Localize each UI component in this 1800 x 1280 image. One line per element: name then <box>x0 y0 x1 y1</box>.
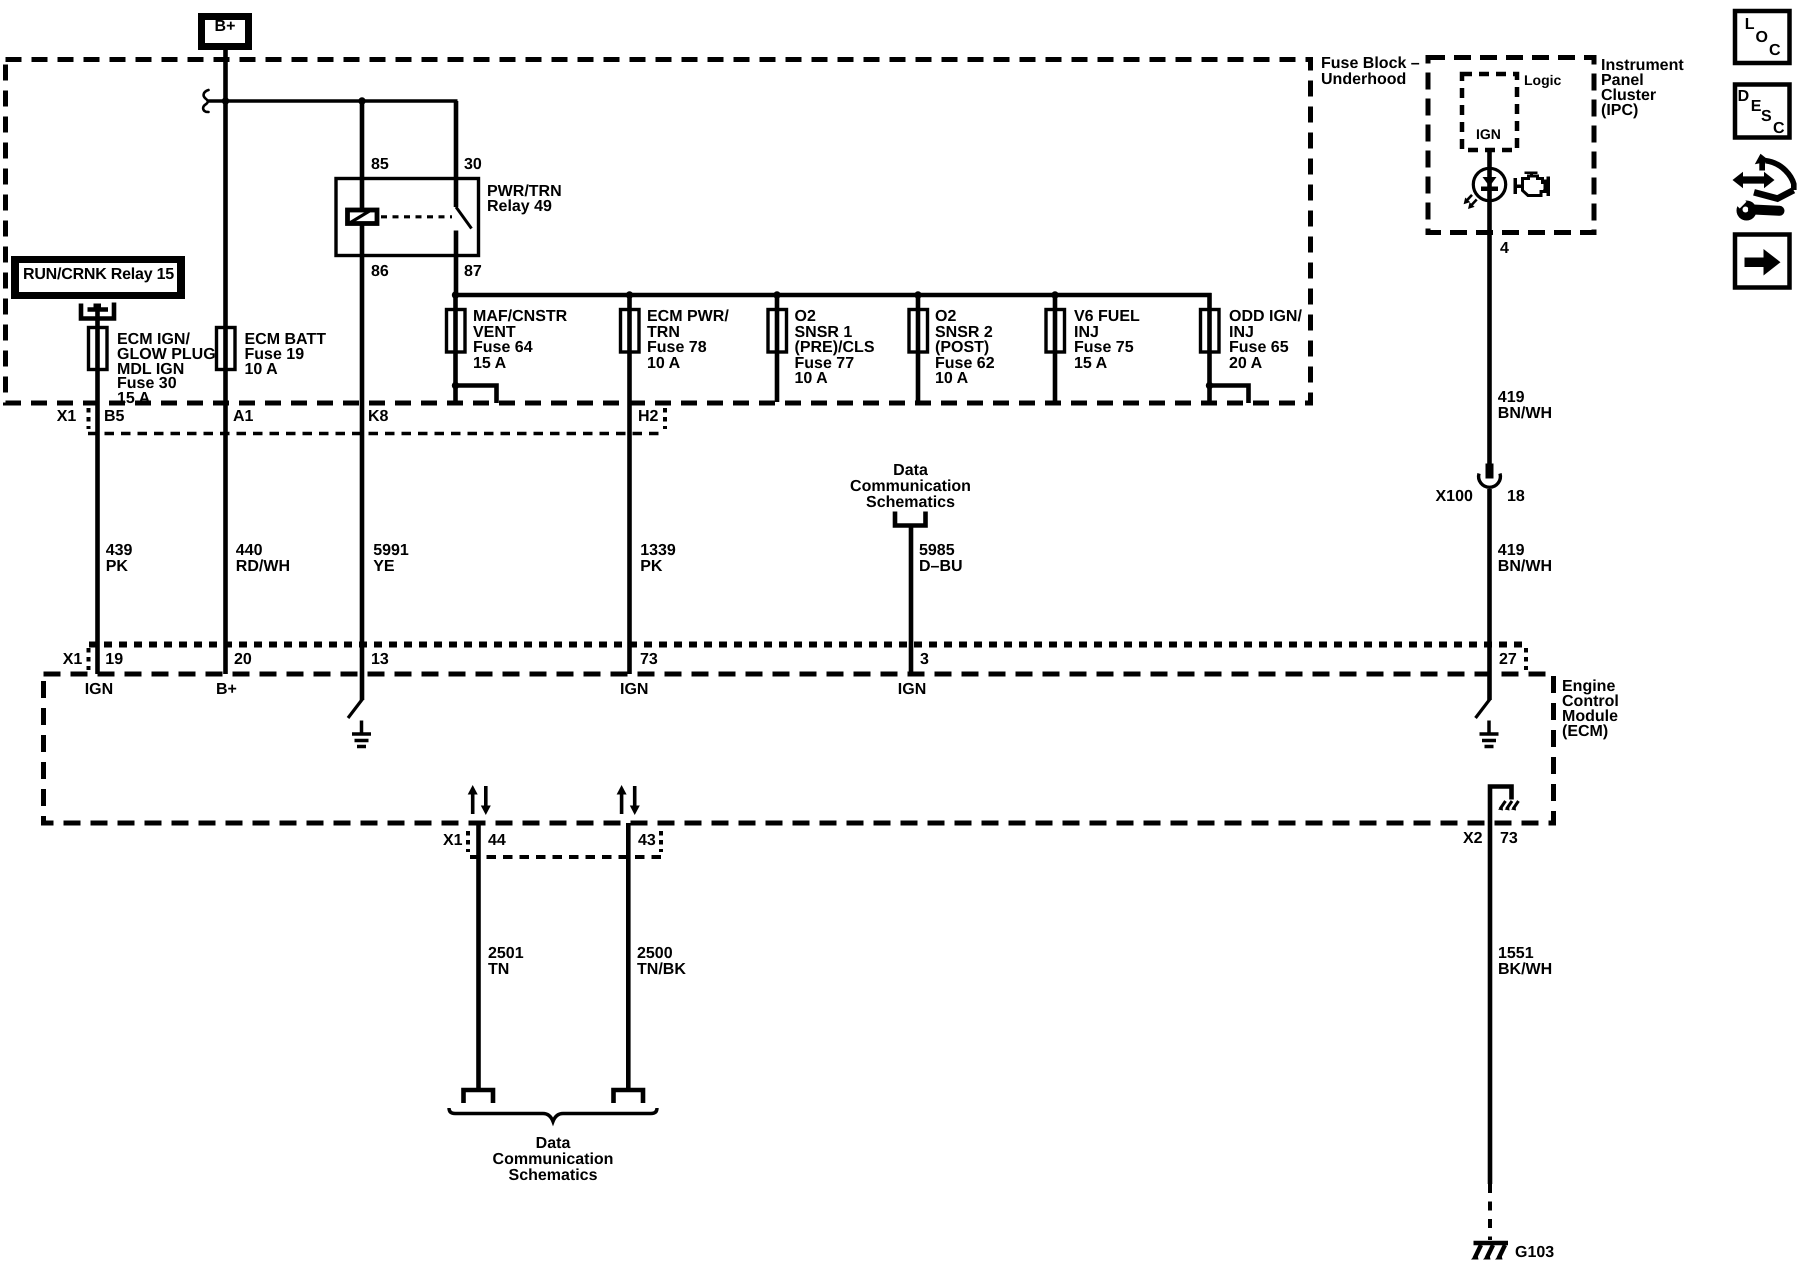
label wire 440 RD/WH <box>236 543 290 575</box>
fuse F64 MAF/CNSTR VENT <box>447 310 466 353</box>
wire relay pin 86 to fuse block connector K8 and ECM pin 13 <box>360 226 365 701</box>
label PWR/TRN Relay 49 <box>487 184 562 215</box>
label Engine Control Module ECM <box>1562 679 1619 739</box>
label pin 73 <box>640 652 658 668</box>
label fuse 77 <box>795 309 875 387</box>
terminal symbol at end of wire 2501 <box>464 1090 494 1103</box>
label pin X2-73 <box>1500 831 1518 847</box>
arrows bidirectional at ECM pin 44 <box>468 785 491 815</box>
ECM connector X1 row at pins 44/43 : lower dotted edge <box>470 855 663 859</box>
label wire 419 BN/WH upper <box>1498 390 1552 422</box>
LED emission arrows <box>1466 195 1477 206</box>
node dot fuse 64 output <box>452 382 459 389</box>
fuse F65 ODD IGN/INJ <box>1201 310 1220 353</box>
label pin 3 <box>920 652 929 668</box>
icon vehicle with arrows and wrench <box>1733 154 1794 221</box>
fuse block underhood dashed box <box>6 60 1311 404</box>
wire relay pin 85 drop <box>360 101 365 208</box>
label pin 44 <box>488 833 506 849</box>
relay coil symbol <box>348 210 378 224</box>
icon box DESC <box>1735 85 1790 138</box>
arrows bidirectional at ECM pin 43 <box>617 785 640 815</box>
connector X1 row fuse block : lower dashed edge <box>88 432 664 436</box>
node dot bus / fuse 62 <box>914 291 921 298</box>
wire fuse 75 feed and output <box>1053 295 1058 402</box>
connector X1 row fuse block : separator after X1 <box>87 408 91 429</box>
ECM Engine Control Module dashed box <box>44 674 1554 823</box>
inline connector X100 male terminal <box>1486 464 1494 479</box>
icon box LOC <box>1735 11 1790 63</box>
label relay pin 85 <box>371 157 389 173</box>
label IGN at pin 19 <box>85 682 113 698</box>
wire fuse 30 feed from terminal <box>95 310 100 675</box>
ECM connector X1 separator after X1 <box>87 648 91 670</box>
wire 1551 dashed continuation to G103 <box>1488 1184 1492 1240</box>
ECM connector X1 row at pins 44/43 : end cap after 43 <box>659 831 663 852</box>
label fuse 62 <box>935 309 995 387</box>
label wire 419 BN/WH lower <box>1498 543 1552 575</box>
fuse F78 ECM PWR/TRN <box>621 310 640 353</box>
label fuse 19 <box>245 333 326 377</box>
label fuse 78 <box>647 309 729 371</box>
fuse F19 ECM BATT <box>217 328 236 370</box>
label data communication schematics upper <box>830 463 991 511</box>
current-hook symbol at left end of B+ branch wire <box>203 90 208 112</box>
label relay pin 87 <box>464 264 482 280</box>
label pin H2 <box>638 409 658 425</box>
icon letters LOC <box>1745 17 1755 33</box>
ground symbol at ECM pin 13 <box>352 721 371 747</box>
IPC Instrument Panel Cluster dashed box <box>1428 58 1594 233</box>
fuse F30 ECM IGN/GLOW PLUG MDL IGN <box>89 328 108 370</box>
label wire 5991 YE <box>373 543 409 575</box>
chassis ground G103 symbol <box>1474 1241 1509 1246</box>
node junction dot branch / relay coil 85 <box>358 97 365 104</box>
data communication branch bracket symbol <box>895 512 926 526</box>
label ground G103 <box>1515 1245 1554 1261</box>
icon letters DESC <box>1738 89 1750 105</box>
label connector X100 <box>1436 489 1473 505</box>
label relay pin 30 <box>464 157 482 173</box>
relay coil-contact dashed link <box>381 215 452 218</box>
chassis ground symbol inside ECM <box>1500 801 1519 809</box>
wire 419 BN/WH from IPC pin 4 to connector X100 <box>1487 233 1492 465</box>
connector X1 row fuse block : separator after H2 <box>663 408 667 429</box>
wire B+ vertical (battery feed to ECM BATT fuse, pin A1/20) <box>223 50 228 674</box>
label connector X1 ECM pins 44/43 <box>443 833 463 849</box>
label connector X1 fuse block <box>57 409 77 425</box>
relay U1 PWR/TRN Relay 49 box <box>336 179 479 256</box>
label pin 20 <box>234 652 252 668</box>
relay switch blade contact <box>456 207 472 229</box>
label RUN/CRNK Relay 15 highlighted box <box>11 256 185 299</box>
wire fused B+ bus <box>454 293 1212 298</box>
engine pictogram (check engine) <box>1514 172 1551 197</box>
wire jog fuse 65 output to connector <box>1210 386 1249 404</box>
terminal symbol at end of wire 2500 <box>614 1090 644 1103</box>
wire IPC ignition feed inside IPC <box>1487 150 1492 233</box>
switch to ground at ECM pin 27 <box>1476 699 1491 718</box>
label pin 13 <box>371 652 389 668</box>
node dot bus / fuse 78 <box>626 291 633 298</box>
label pin 18 <box>1507 489 1525 505</box>
label pin A1 <box>233 409 253 425</box>
label IGN at pin 73 <box>620 682 648 698</box>
label Logic <box>1524 73 1561 87</box>
fuse F77 O2 SNSR 1 <box>768 310 787 353</box>
ground symbol at ECM pin 27 <box>1480 721 1499 747</box>
label pin K8 <box>368 409 388 425</box>
label wire 5985 D-BU <box>919 543 963 575</box>
label relay pin 86 <box>371 264 389 280</box>
label pin 4 <box>1500 241 1509 257</box>
indicator lamp LED circle (MIL) <box>1473 168 1505 200</box>
connector terminal symbol from RUN/CRNK Relay 15 <box>81 303 114 319</box>
label Fuse Block Underhood <box>1321 57 1420 88</box>
label wire 439 PK <box>106 543 133 575</box>
wire 1551 BK/WH from ECM pin X2-73 <box>1488 823 1493 1184</box>
wire fuse 78 feed and output to connector H2 / ECM pin 73 <box>627 295 632 674</box>
curly brace data communication group <box>449 1108 657 1122</box>
IPC Logic dashed box <box>1462 74 1517 150</box>
fuse F62 O2 SNSR 2 <box>909 310 928 353</box>
wire jog fuse 64 output to connector <box>456 386 497 404</box>
label B+ <box>198 19 252 35</box>
node junction dot B+ / branch <box>222 97 229 104</box>
wire relay pin 30 drop <box>454 101 459 207</box>
label B+ at pin 20 <box>216 682 237 698</box>
label pin 43 <box>638 833 656 849</box>
ECM connector X1 end cap after pin 27 <box>1524 648 1528 670</box>
label fuse 64 <box>473 309 567 371</box>
node dot bus / fuse 75 <box>1051 291 1058 298</box>
wire horizontal B+ branch to relay 49 pins 85 and 30 <box>207 99 458 103</box>
wire ECM internal ground to pin X2-73 <box>1490 787 1512 824</box>
wire fuse 65 feed and output <box>1207 293 1212 403</box>
label connector X2 ECM <box>1463 831 1483 847</box>
label data communication schematics lower <box>470 1136 636 1184</box>
label IGN at pin 3 <box>898 682 926 698</box>
label wire 1551 BK/WH <box>1498 946 1552 978</box>
label pin B5 <box>104 409 124 425</box>
icon box arrow <box>1735 235 1790 288</box>
wire 5985 D-BU from data communication bracket to ECM pin 3 <box>909 527 914 674</box>
fuse F75 V6 FUEL INJ <box>1046 310 1065 353</box>
ECM connector X1 dotted row <box>89 642 1526 648</box>
label fuse 65 <box>1229 309 1302 371</box>
wire fuse 62 feed and output <box>916 295 921 402</box>
ECM connector X1 row at pins 44/43 : separator after X1 <box>466 831 470 852</box>
label wire 2501 TN <box>488 946 524 978</box>
wire relay pin 87 to fused bus <box>454 231 459 298</box>
inline connector X100 female terminal arc <box>1479 474 1501 488</box>
label pin 27 <box>1499 652 1517 668</box>
label wire 1339 PK <box>640 543 676 575</box>
label connector X1 ECM <box>63 652 83 668</box>
node dot fuse 65 output <box>1206 382 1213 389</box>
LED diode bar <box>1481 187 1498 192</box>
switch to ground at ECM pin 13 <box>348 699 363 718</box>
wire fuse 64 feed and output <box>453 295 458 403</box>
label Instrument Panel Cluster <box>1601 60 1684 119</box>
label fuse 75 <box>1074 309 1140 371</box>
wire 2500 TN/BK from ECM pin 43 <box>626 823 631 1088</box>
node dot bus / fuse 77 <box>773 291 780 298</box>
LED diode triangle <box>1483 177 1497 187</box>
label fuse 30 <box>117 333 216 407</box>
wire fuse 77 feed and output <box>775 295 780 402</box>
label pin 19 <box>105 652 123 668</box>
wire 2501 TN from ECM pin 44 <box>476 823 481 1088</box>
B+ power symbol box <box>202 17 249 47</box>
node dot bus / fuse 64 <box>452 291 459 298</box>
label IGN inside logic box <box>1476 127 1501 141</box>
wire 419 BN/WH from X100 pin 18 to ECM pin 27 <box>1487 489 1492 700</box>
label wire 2500 TN/BK <box>637 946 686 978</box>
